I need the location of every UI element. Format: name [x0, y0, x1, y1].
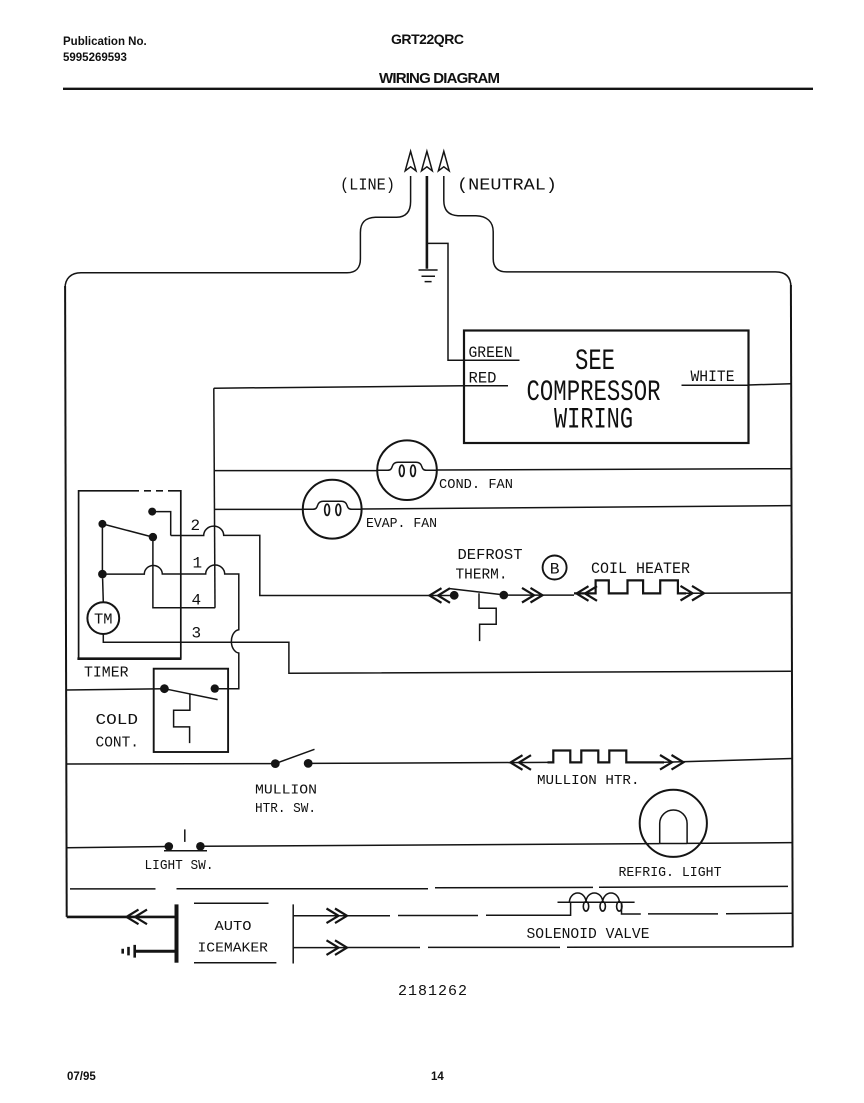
wire coil heater to right border — [686, 592, 791, 594]
svg-text:(NEUTRAL): (NEUTRAL) — [457, 177, 557, 196]
wire bottom row to border — [347, 946, 793, 949]
wire line 2 to defrost — [171, 526, 454, 595]
wire mullion switch to heater — [308, 762, 547, 763]
timer box — [79, 491, 181, 659]
red bus vertical — [214, 388, 215, 608]
mullion switch contact right — [304, 759, 313, 768]
wire condenser fan row right to border — [437, 469, 791, 470]
svg-text:WIRING DIAGRAM: WIRING DIAGRAM — [379, 70, 500, 87]
svg-text:4: 4 — [192, 592, 202, 610]
light switch stem — [184, 829, 186, 842]
node B circle — [543, 556, 567, 580]
wire condenser fan row left — [214, 470, 377, 472]
timer motor TM — [87, 602, 119, 634]
light switch contact left — [165, 842, 174, 851]
svg-text:CONT.: CONT. — [96, 735, 140, 752]
timer contact mid — [149, 533, 157, 541]
connector chevrons left of coil heater — [577, 586, 598, 601]
defrost spring staircase — [479, 593, 496, 641]
wire solenoid row right to border — [622, 902, 793, 914]
cold control box — [154, 669, 228, 752]
green terminal underline — [464, 359, 520, 361]
timer switch arm — [102, 524, 152, 537]
svg-text:MULLION HTR.: MULLION HTR. — [537, 773, 640, 789]
wire left border bottom feed — [67, 916, 177, 919]
wire white to right border — [749, 384, 791, 385]
condenser fan motor — [377, 440, 437, 500]
svg-text:COLD: COLD — [96, 712, 139, 729]
connector chevrons bottom row — [327, 940, 348, 955]
wire red from timer bus — [214, 386, 464, 388]
svg-text:5995269593: 5995269593 — [63, 52, 127, 64]
wire refrig light to right border — [660, 842, 792, 845]
connector chevrons solenoid row — [327, 909, 348, 924]
svg-text:LIGHT SW.: LIGHT SW. — [145, 858, 214, 874]
svg-text:TIMER: TIMER — [84, 665, 129, 682]
wire green branch — [428, 243, 465, 360]
ground symbol icemaker — [123, 945, 135, 958]
svg-text:SOLENOID VALVE: SOLENOID VALVE — [527, 926, 650, 943]
svg-text:2181262: 2181262 — [398, 983, 467, 1000]
ground lead center — [426, 176, 429, 269]
cold control contact left — [160, 684, 169, 693]
cold control switch arm — [164, 689, 217, 700]
svg-text:RED: RED — [469, 370, 497, 388]
svg-text:COIL HEATER: COIL HEATER — [591, 560, 690, 578]
connector chevrons icemaker feed — [127, 910, 148, 925]
light switch bar — [164, 850, 207, 852]
wire evaporator fan row left — [215, 508, 303, 510]
light switch contact right — [196, 842, 205, 851]
connector chevrons left of mullion heater — [511, 755, 532, 770]
wire left border to mullion switch — [66, 763, 275, 765]
wire line 3 TM to right border — [103, 634, 791, 673]
auto icemaker box — [194, 903, 293, 963]
cold control spring staircase — [174, 694, 190, 743]
timer box bottom edge — [77, 657, 181, 660]
compressor wiring box — [464, 331, 749, 444]
svg-text:3: 3 — [192, 625, 202, 643]
svg-text:WHITE: WHITE — [691, 368, 735, 386]
svg-text:HTR. SW.: HTR. SW. — [255, 801, 316, 817]
svg-text:GRT22QRC: GRT22QRC — [391, 31, 464, 47]
svg-text:ICEMAKER: ICEMAKER — [198, 941, 269, 957]
coil heater element square wave — [574, 580, 686, 593]
svg-text:MULLION: MULLION — [255, 783, 317, 799]
white terminal underline — [682, 384, 749, 386]
wire ground to icemaker — [135, 950, 177, 953]
svg-text:B: B — [550, 561, 560, 579]
left border — [65, 286, 67, 917]
wire line 4 — [153, 541, 215, 608]
svg-text:14: 14 — [431, 1071, 444, 1083]
connector chevrons left of defrost therm — [430, 588, 451, 603]
mullion switch contact left — [271, 759, 280, 768]
wire evaporator fan row right to border — [361, 506, 791, 509]
icemaker left bar — [175, 904, 179, 962]
arrow head center — [422, 151, 433, 171]
connector chevrons right of mullion heater — [660, 755, 684, 770]
wire left border to light switch — [67, 847, 169, 848]
svg-text:2: 2 — [191, 517, 201, 535]
mullion heater element square wave — [548, 751, 665, 763]
svg-text:1: 1 — [193, 555, 203, 573]
svg-text:GREEN: GREEN — [469, 344, 513, 362]
cold control contact right — [211, 684, 219, 692]
defrost therm contact right — [500, 591, 509, 600]
header rule line — [63, 88, 813, 90]
svg-text:07/95: 07/95 — [67, 1071, 96, 1083]
svg-text:EVAP. FAN: EVAP. FAN — [366, 516, 437, 532]
svg-text:SEE: SEE — [575, 345, 615, 379]
svg-text:DEFROST: DEFROST — [458, 547, 523, 564]
svg-text:Publication No.: Publication No. — [63, 36, 147, 48]
timer pivot contact — [98, 520, 106, 528]
wire line 1 to cold control — [102, 565, 238, 689]
svg-text:TM: TM — [94, 612, 113, 629]
wire NEUTRAL lead and top-right border — [444, 176, 791, 287]
connector chevrons right of coil heater — [681, 586, 705, 601]
defrost therm contact left — [450, 591, 459, 600]
wire left border to cold control — [66, 689, 164, 690]
mullion switch arm — [275, 749, 314, 763]
wire contact top to line 2 — [152, 512, 171, 536]
wire LINE lead and top-left border — [65, 176, 411, 288]
arrow head LINE — [405, 151, 416, 171]
svg-text:REFRIG. LIGHT: REFRIG. LIGHT — [619, 865, 722, 881]
solenoid valve coil — [558, 893, 635, 911]
wire junction to TM — [102, 578, 105, 602]
right border — [791, 285, 793, 947]
wire defrost to coil heater — [504, 594, 574, 596]
wire long bus row — [70, 886, 788, 889]
wire pivot down to junction — [101, 524, 103, 574]
wire icemaker to solenoid row — [293, 915, 347, 917]
svg-text:WIRING: WIRING — [554, 404, 633, 438]
svg-text:(LINE): (LINE) — [340, 177, 395, 196]
ground symbol earth — [419, 270, 438, 282]
red terminal underline — [464, 385, 508, 387]
evaporator fan motor — [303, 480, 362, 539]
refrig light bulb — [640, 790, 707, 857]
svg-text:THERM.: THERM. — [456, 567, 508, 584]
arrow head NEUTRAL — [438, 151, 449, 171]
wire mullion heater to right border — [664, 759, 792, 763]
wire light switch to refrig light — [200, 844, 659, 847]
connector chevrons right of defrost therm — [522, 588, 543, 603]
wire solenoid row left — [347, 902, 571, 915]
svg-text:COND. FAN: COND. FAN — [439, 477, 513, 493]
timer contact top — [148, 508, 156, 516]
svg-text:AUTO: AUTO — [215, 919, 252, 935]
wire icemaker bottom row — [293, 947, 347, 949]
junction node dot — [98, 570, 107, 579]
defrost therm arm — [450, 589, 504, 595]
